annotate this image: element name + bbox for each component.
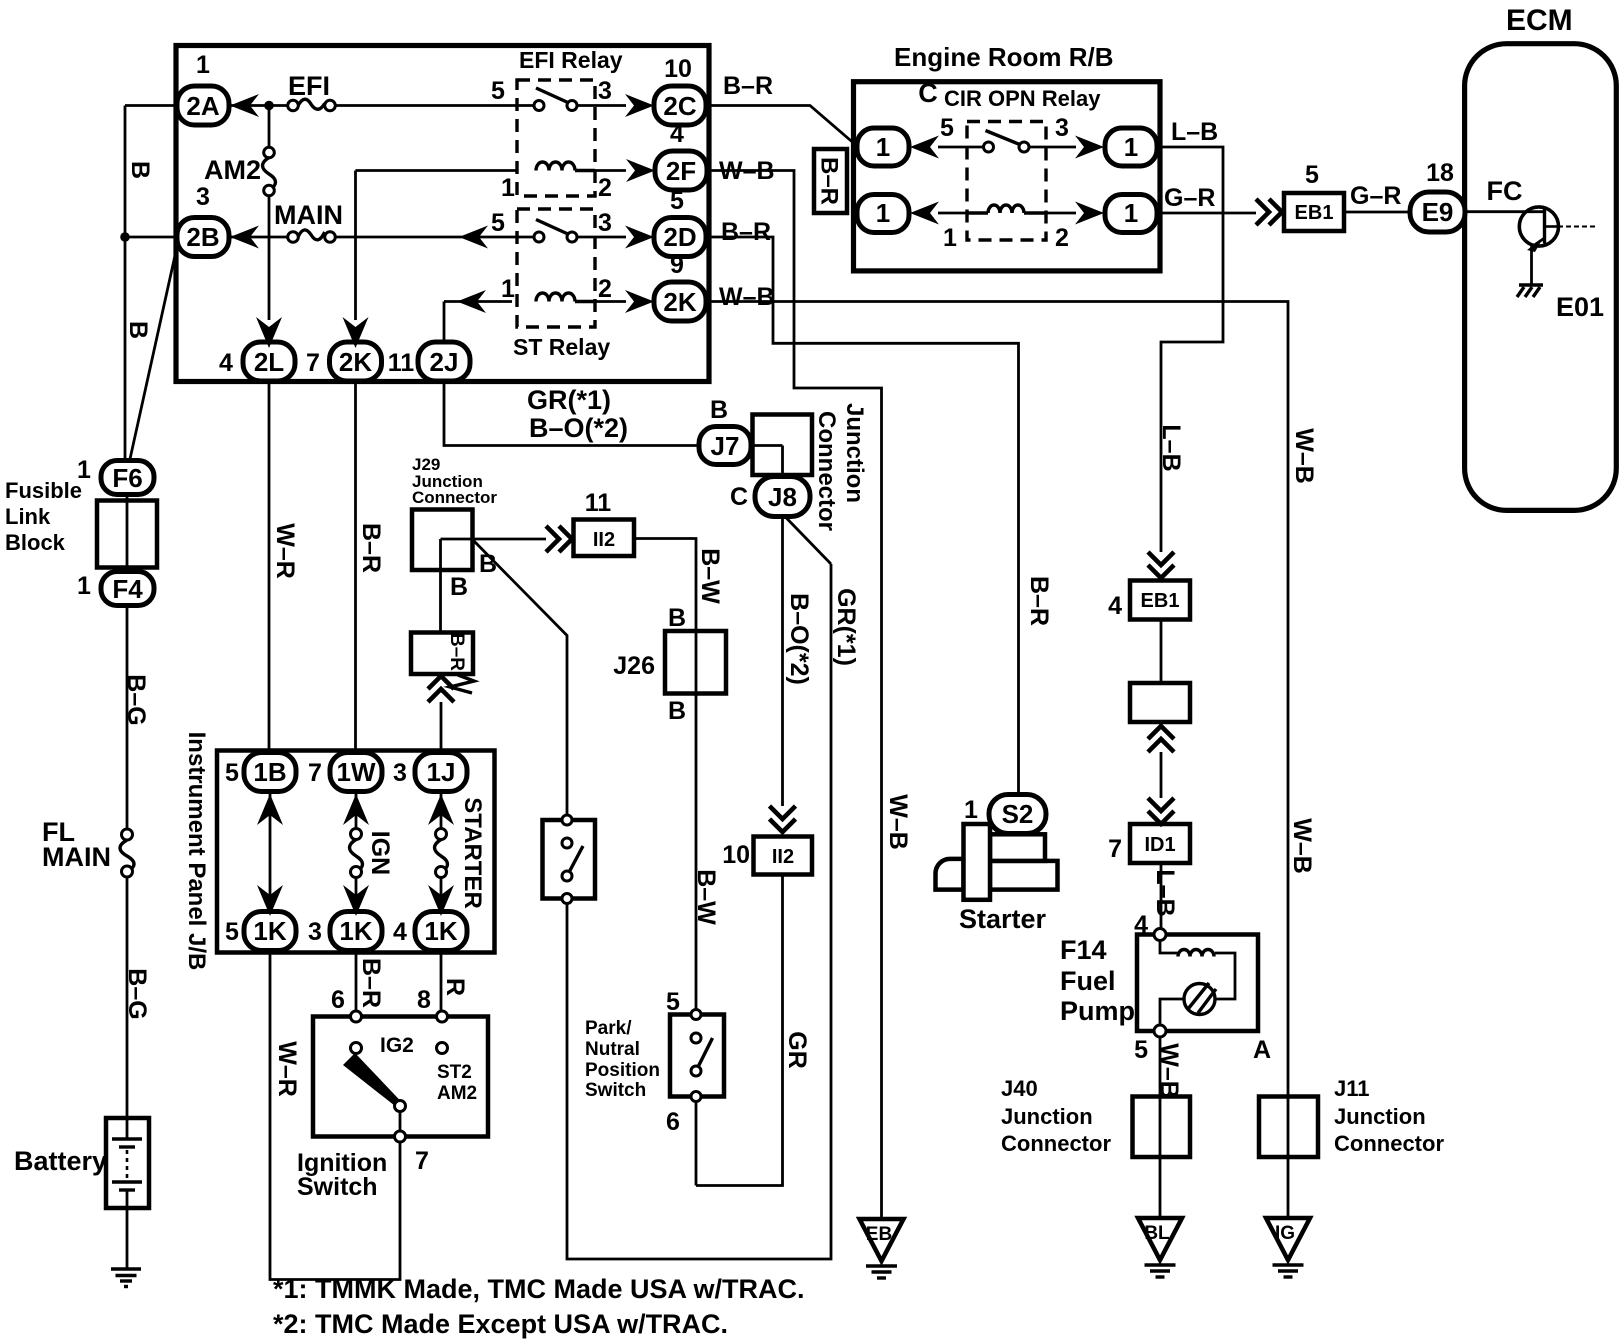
svg-text:1: 1 (77, 572, 91, 600)
svg-text:B–G: B–G (122, 674, 150, 725)
svg-text:MAIN: MAIN (274, 200, 343, 230)
svg-text:EFI Relay: EFI Relay (519, 47, 623, 73)
svg-text:7: 7 (415, 1147, 429, 1175)
svg-text:6: 6 (666, 1108, 680, 1136)
svg-text:B: B (668, 697, 686, 725)
svg-text:2L: 2L (254, 347, 284, 377)
svg-text:B: B (450, 573, 468, 601)
svg-text:2B: 2B (186, 222, 219, 252)
svg-text:ST Relay: ST Relay (513, 334, 610, 360)
svg-text:2A: 2A (186, 91, 219, 121)
svg-text:Connector: Connector (412, 488, 497, 507)
svg-text:Starter: Starter (959, 904, 1047, 934)
svg-text:5: 5 (491, 77, 505, 105)
svg-text:EB1: EB1 (1295, 202, 1334, 224)
svg-text:AM2: AM2 (437, 1083, 477, 1104)
svg-text:Battery: Battery (14, 1146, 107, 1176)
svg-text:2: 2 (1055, 224, 1069, 252)
svg-text:3: 3 (598, 209, 612, 237)
svg-text:2J: 2J (430, 347, 459, 377)
svg-text:*1: TMMK Made, TMC Made USA w/: *1: TMMK Made, TMC Made USA w/TRAC. (273, 1274, 805, 1304)
svg-text:Junction: Junction (1334, 1104, 1426, 1129)
svg-text:W–R: W–R (271, 523, 299, 579)
svg-text:W–B: W–B (1155, 1043, 1183, 1099)
svg-text:W–R: W–R (273, 1041, 301, 1097)
svg-text:4: 4 (393, 918, 407, 946)
svg-text:1: 1 (876, 132, 890, 162)
svg-text:B–O(*2): B–O(*2) (785, 593, 813, 685)
svg-text:ID1: ID1 (1144, 834, 1175, 856)
svg-text:FC: FC (1487, 176, 1523, 206)
svg-text:5: 5 (225, 759, 239, 787)
svg-text:B–R: B–R (357, 958, 385, 1008)
svg-text:1J: 1J (427, 757, 456, 787)
svg-text:1: 1 (964, 796, 978, 824)
svg-text:Connector: Connector (813, 411, 840, 531)
svg-text:11: 11 (388, 349, 415, 377)
svg-text:3: 3 (196, 183, 210, 211)
svg-text:B–G: B–G (123, 968, 151, 1019)
svg-text:Connector: Connector (1001, 1131, 1111, 1156)
svg-text:1: 1 (501, 174, 515, 202)
svg-text:F6: F6 (112, 463, 142, 493)
svg-text:3: 3 (598, 77, 612, 105)
svg-text:2F: 2F (666, 156, 696, 186)
svg-text:7: 7 (306, 349, 320, 377)
svg-text:Pump: Pump (1060, 996, 1135, 1026)
svg-text:5: 5 (670, 187, 684, 215)
svg-text:9: 9 (670, 251, 684, 279)
svg-text:1K: 1K (253, 916, 286, 946)
svg-text:2K: 2K (339, 347, 372, 377)
svg-text:GR: GR (783, 1031, 811, 1069)
svg-text:Switch: Switch (297, 1173, 378, 1201)
svg-text:Switch: Switch (585, 1080, 646, 1101)
svg-text:ECM: ECM (1506, 4, 1573, 37)
svg-text:1: 1 (196, 51, 210, 79)
svg-text:L–B: L–B (1151, 869, 1179, 916)
svg-text:1W: 1W (337, 757, 376, 787)
svg-text:Fuel: Fuel (1060, 966, 1116, 996)
svg-text:IGN: IGN (366, 831, 394, 875)
svg-text:3: 3 (308, 918, 322, 946)
svg-text:2: 2 (598, 275, 612, 303)
svg-text:C: C (918, 78, 938, 108)
svg-text:F4: F4 (112, 574, 143, 604)
svg-text:Block: Block (5, 530, 66, 555)
svg-text:B–R: B–R (446, 633, 467, 671)
svg-text:7: 7 (1108, 835, 1122, 863)
svg-text:ST2: ST2 (437, 1062, 472, 1083)
svg-text:2C: 2C (663, 91, 696, 121)
svg-text:B: B (479, 550, 497, 578)
svg-text:W–B: W–B (1290, 428, 1318, 484)
svg-text:10: 10 (664, 55, 692, 83)
svg-text:4: 4 (1108, 592, 1122, 620)
svg-text:8: 8 (417, 986, 431, 1014)
svg-text:J11: J11 (1334, 1076, 1370, 1101)
svg-text:CIR OPN Relay: CIR OPN Relay (944, 86, 1101, 111)
svg-text:AM2: AM2 (204, 155, 261, 185)
svg-text:4: 4 (219, 349, 233, 377)
svg-text:10: 10 (722, 841, 750, 869)
svg-text:2D: 2D (663, 222, 696, 252)
svg-text:Junction: Junction (841, 403, 868, 503)
svg-text:G–R: G–R (1164, 184, 1215, 212)
svg-text:5: 5 (666, 988, 680, 1016)
svg-text:4: 4 (1134, 911, 1148, 939)
svg-text:II2: II2 (772, 846, 794, 868)
svg-text:C: C (730, 483, 748, 511)
svg-text:Nutral: Nutral (585, 1039, 640, 1060)
svg-text:L–B: L–B (1171, 118, 1218, 146)
svg-text:1B: 1B (253, 757, 286, 787)
svg-text:Fusible: Fusible (5, 478, 82, 503)
svg-text:MAIN: MAIN (42, 842, 111, 872)
svg-text:1K: 1K (424, 916, 457, 946)
svg-text:G–R: G–R (1350, 182, 1401, 210)
svg-text:5: 5 (940, 114, 954, 142)
svg-text:IG: IG (1275, 1223, 1295, 1244)
svg-text:5: 5 (1305, 161, 1319, 189)
svg-text:E01: E01 (1556, 292, 1604, 322)
svg-text:1K: 1K (339, 916, 372, 946)
svg-text:II2: II2 (593, 529, 615, 551)
svg-text:3: 3 (393, 759, 407, 787)
svg-text:EB: EB (866, 1224, 892, 1245)
svg-text:E9: E9 (1422, 197, 1454, 227)
svg-text:*2: TMC Made Except USA w/TRAC: *2: TMC Made Except USA w/TRAC. (273, 1309, 728, 1339)
svg-text:5: 5 (225, 918, 239, 946)
svg-text:W–B: W–B (884, 794, 912, 850)
svg-text:B–R: B–R (357, 523, 385, 573)
svg-text:Connector: Connector (1334, 1131, 1444, 1156)
svg-text:J8: J8 (768, 482, 797, 512)
svg-text:EB1: EB1 (1141, 590, 1180, 612)
svg-text:IG2: IG2 (380, 1034, 414, 1057)
svg-text:B: B (126, 161, 154, 179)
svg-text:2: 2 (598, 174, 612, 202)
svg-text:3: 3 (1055, 114, 1069, 142)
svg-text:W–B: W–B (719, 157, 775, 185)
svg-text:F14: F14 (1060, 935, 1107, 965)
svg-text:B–R: B–R (723, 72, 773, 100)
svg-text:B–R: B–R (721, 218, 771, 246)
svg-text:5: 5 (491, 209, 505, 237)
svg-text:J40: J40 (1001, 1076, 1038, 1101)
svg-text:1: 1 (501, 275, 515, 303)
svg-text:Link: Link (5, 504, 51, 529)
svg-text:6: 6 (331, 986, 345, 1014)
svg-text:GR(*1): GR(*1) (527, 385, 611, 415)
svg-text:18: 18 (1426, 159, 1454, 187)
svg-text:1: 1 (943, 224, 957, 252)
svg-text:W–B: W–B (719, 283, 775, 311)
svg-text:EFI: EFI (288, 71, 330, 101)
svg-text:J7: J7 (711, 431, 740, 461)
svg-text:BL: BL (1144, 1223, 1170, 1244)
svg-text:B–W: B–W (692, 869, 720, 925)
svg-text:Instrument Panel J/B: Instrument Panel J/B (183, 732, 210, 971)
svg-text:11: 11 (585, 489, 612, 517)
svg-text:5: 5 (1134, 1036, 1148, 1064)
svg-text:W–B: W–B (1288, 818, 1316, 874)
svg-text:J26: J26 (613, 652, 655, 680)
svg-text:L–B: L–B (1157, 424, 1185, 471)
svg-text:1: 1 (1124, 198, 1138, 228)
svg-text:2K: 2K (663, 287, 696, 317)
svg-text:Junction: Junction (1001, 1104, 1093, 1129)
svg-text:B–R: B–R (816, 157, 843, 205)
svg-text:R: R (441, 978, 469, 996)
svg-text:S2: S2 (1002, 799, 1034, 829)
svg-text:B: B (668, 604, 686, 632)
svg-text:1: 1 (876, 198, 890, 228)
svg-text:7: 7 (308, 759, 322, 787)
svg-text:Position: Position (585, 1060, 660, 1081)
svg-text:Park/: Park/ (585, 1018, 632, 1039)
svg-text:STARTER: STARTER (459, 797, 486, 909)
svg-text:GR(*1): GR(*1) (832, 588, 860, 666)
svg-text:B–R: B–R (1025, 576, 1053, 626)
svg-text:B–O(*2): B–O(*2) (529, 413, 628, 443)
svg-text:B–W: B–W (696, 548, 724, 604)
svg-text:1: 1 (1124, 132, 1138, 162)
svg-text:Engine Room R/B: Engine Room R/B (894, 42, 1114, 72)
svg-text:4: 4 (670, 120, 684, 148)
svg-text:B: B (124, 321, 152, 339)
svg-text:A: A (1253, 1036, 1271, 1064)
svg-text:B: B (710, 396, 728, 424)
